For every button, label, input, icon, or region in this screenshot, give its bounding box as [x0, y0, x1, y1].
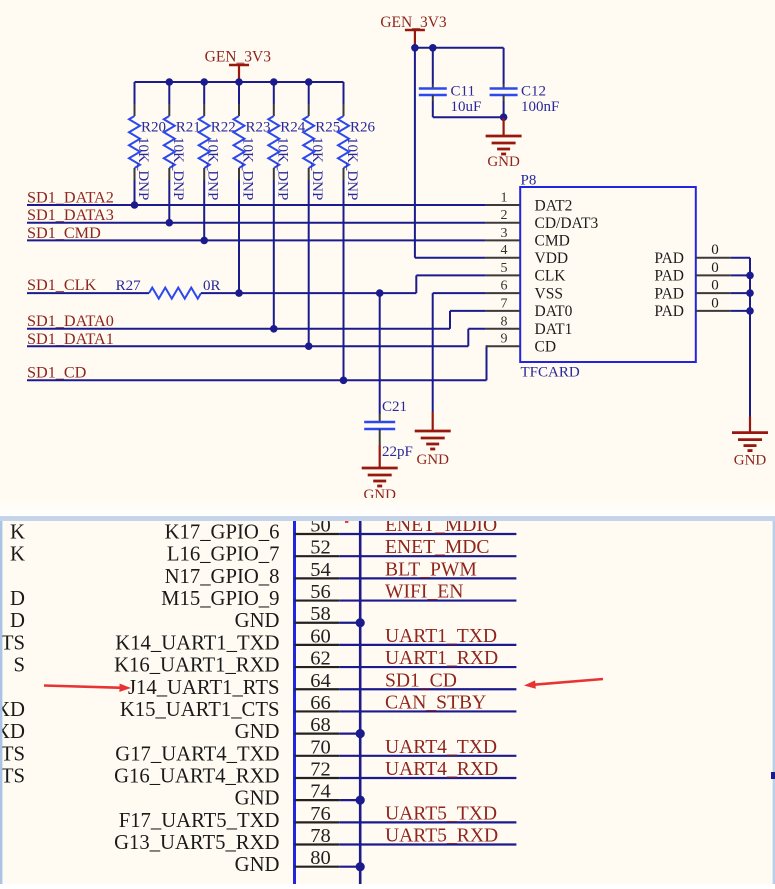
pin 1 DAT2 [486, 204, 521, 206]
node GND junction [356, 796, 365, 805]
svg-text:UART5_RXD: UART5_RXD [385, 826, 498, 847]
svg-text:C12: C12 [521, 84, 546, 100]
svg-text:GND: GND [235, 854, 280, 876]
svg-text:S: S [13, 655, 25, 677]
svg-text:72: 72 [310, 758, 331, 780]
wire GND bus vertical [359, 521, 362, 884]
pin 2 CD/DAT3 [486, 222, 521, 224]
svg-text:56: 56 [310, 581, 331, 603]
svg-text:9: 9 [501, 332, 508, 347]
svg-text:10K_DNP: 10K_DNP [240, 137, 256, 200]
svg-text:CD/DAT3: CD/DAT3 [535, 215, 599, 232]
svg-text:SD1_CMD: SD1_CMD [27, 224, 101, 242]
node GND junction [356, 862, 365, 871]
svg-text:GND: GND [734, 453, 767, 469]
svg-text:K17_GPIO_6: K17_GPIO_6 [165, 522, 280, 544]
svg-text:R22: R22 [211, 120, 236, 136]
ground GND below VSS [432, 412, 434, 431]
svg-text:ENET_MDC: ENET_MDC [385, 537, 490, 558]
svg-text:G13_UART5_RXD: G13_UART5_RXD [114, 832, 279, 854]
svg-text:1: 1 [501, 191, 508, 206]
svg-text:K14_UART1_TXD: K14_UART1_TXD [115, 632, 279, 654]
svg-text:R24: R24 [280, 120, 306, 136]
node GND junction [356, 618, 365, 627]
pin 3 CMD [486, 239, 521, 241]
svg-text:100nF: 100nF [521, 99, 559, 115]
wire SD1_CMD to pin 3 [27, 239, 486, 241]
svg-text:SD1_DATA1: SD1_DATA1 [27, 330, 114, 348]
pin 50 [295, 533, 340, 535]
svg-text:VSS: VSS [535, 285, 563, 302]
svg-text:66: 66 [310, 692, 331, 714]
svg-text:GND: GND [235, 721, 280, 743]
pin 9 CD [486, 345, 521, 347]
svg-text:D: D [10, 588, 25, 610]
resistor R26 10K_DNP [343, 104, 345, 116]
svg-text:0: 0 [711, 295, 719, 311]
svg-text:52: 52 [310, 537, 331, 559]
resistor R22 10K_DNP [203, 104, 205, 116]
svg-text:PAD: PAD [654, 285, 684, 302]
wire cap bottom rail [433, 116, 504, 118]
svg-text:SD1_CD: SD1_CD [385, 670, 457, 691]
svg-text:TFCARD: TFCARD [521, 365, 580, 381]
svg-text:K15_UART1_CTS: K15_UART1_CTS [120, 699, 280, 721]
svg-text:SD1_DATA0: SD1_DATA0 [27, 312, 114, 330]
resistor R25 10K_DNP [308, 104, 310, 116]
svg-text:10K_DNP: 10K_DNP [274, 137, 290, 200]
pin 68 [295, 733, 340, 735]
svg-text:C21: C21 [382, 399, 407, 415]
wire SD1_CLK left segment [27, 292, 149, 294]
pin 54 [295, 577, 340, 579]
pin 58 [295, 622, 340, 624]
wire SD1_DATA2 to pin 1 [27, 204, 486, 206]
pin PAD 3 [696, 292, 731, 294]
pin 70 [295, 755, 340, 757]
svg-text:10K_DNP: 10K_DNP [205, 137, 221, 200]
capacitor C21 22pF [379, 293, 381, 414]
wire PAD bus to ground [749, 258, 751, 417]
svg-text:BLT_PWM: BLT_PWM [385, 559, 477, 580]
svg-text:60: 60 [310, 625, 331, 647]
pin PAD 4 [696, 310, 731, 312]
arrow pointing to J14_UART1_RTS [44, 686, 123, 688]
wire SD1_CLK right segment to pin 5 [201, 292, 416, 294]
left edge strip [0, 521, 2, 884]
svg-text:10K_DNP: 10K_DNP [135, 137, 151, 200]
svg-text:78: 78 [310, 825, 331, 847]
svg-text:DAT1: DAT1 [535, 321, 573, 338]
pin PAD 2 [696, 274, 731, 276]
svg-text:N17_GPIO_8: N17_GPIO_8 [165, 566, 280, 588]
svg-text:PAD: PAD [654, 303, 684, 320]
pin 8 DAT1 [486, 328, 521, 330]
svg-text:2: 2 [501, 208, 508, 223]
svg-text:R21: R21 [176, 120, 201, 136]
svg-text:G17_UART4_TXD: G17_UART4_TXD [115, 743, 279, 765]
svg-text:K: K [10, 544, 25, 566]
pin 52 [295, 555, 340, 557]
svg-text:UART4_RXD: UART4_RXD [385, 759, 498, 780]
power GEN_3V3 (right, above C11/C12) [405, 29, 425, 32]
svg-text:10K_DNP: 10K_DNP [309, 137, 325, 200]
svg-text:K16_UART1_RXD: K16_UART1_RXD [114, 655, 279, 677]
ground GND below PAD bus [749, 417, 751, 433]
svg-text:P8: P8 [521, 173, 537, 189]
svg-text:GND: GND [416, 452, 449, 468]
pin 80 [295, 866, 340, 868]
svg-text:C11: C11 [451, 84, 475, 100]
wire left part edge [293, 521, 296, 884]
svg-text:GND: GND [235, 610, 280, 632]
svg-text:R23: R23 [246, 120, 271, 136]
resistor R21 10K_DNP [168, 104, 170, 116]
svg-text:76: 76 [310, 803, 331, 825]
svg-text:UART1_RXD: UART1_RXD [385, 648, 498, 669]
pin 62 [295, 666, 340, 668]
svg-text:10uF: 10uF [451, 99, 482, 115]
svg-text:0: 0 [711, 242, 719, 258]
pin 4 VDD [486, 257, 521, 259]
pin 78 [295, 843, 340, 845]
pin 7 DAT0 [486, 310, 521, 312]
svg-text:80: 80 [310, 847, 331, 869]
red mark near pin 50 [345, 520, 348, 523]
svg-text:GEN_3V3: GEN_3V3 [205, 49, 272, 66]
svg-text:XD: XD [0, 721, 25, 743]
svg-text:SD1_CD: SD1_CD [27, 364, 87, 382]
svg-text:DAT0: DAT0 [535, 303, 573, 320]
power GEN_3V3 (left, above pullup bus) [229, 64, 249, 67]
svg-text:UART4_TXD: UART4_TXD [385, 737, 497, 758]
connector P8 TFCARD [520, 187, 696, 362]
svg-text:0: 0 [711, 260, 719, 276]
wire VSS pin 6 to ground [433, 292, 486, 294]
wire SD1_DATA0 to pin 7 [27, 328, 450, 330]
svg-text:6: 6 [501, 279, 508, 294]
svg-text:SD1_DATA3: SD1_DATA3 [27, 206, 114, 224]
svg-text:SD1_DATA2: SD1_DATA2 [27, 189, 114, 207]
resistor R20 10K_DNP [134, 104, 136, 116]
svg-text:58: 58 [310, 603, 331, 625]
wire SD1_CD to pin 9 [27, 379, 487, 381]
svg-text:5: 5 [501, 261, 508, 276]
pin 74 [295, 799, 340, 801]
svg-text:R25: R25 [315, 120, 340, 136]
svg-text:PAD: PAD [654, 268, 684, 285]
svg-text:PAD: PAD [654, 250, 684, 267]
pin 72 [295, 777, 340, 779]
svg-text:G16_UART4_RXD: G16_UART4_RXD [114, 765, 279, 787]
capacitor C11 10uF [432, 48, 434, 84]
svg-text:VDD: VDD [535, 250, 569, 267]
pin 64 [295, 688, 340, 690]
svg-text:0R: 0R [203, 278, 221, 294]
svg-text:22pF: 22pF [382, 444, 413, 460]
wire SD1_DATA3 to pin 2 [27, 222, 486, 224]
ground GND below C12 [503, 118, 505, 136]
svg-text:CD: CD [535, 339, 557, 356]
svg-text:R27: R27 [116, 278, 142, 294]
svg-text:7: 7 [501, 296, 508, 311]
svg-text:8: 8 [501, 314, 508, 329]
svg-text:SD1_CLK: SD1_CLK [27, 276, 97, 294]
svg-text:CMD: CMD [535, 233, 570, 250]
svg-text:DAT2: DAT2 [535, 197, 573, 214]
svg-text:M15_GPIO_9: M15_GPIO_9 [161, 588, 279, 610]
wire SD1_DATA1 to pin 8 [27, 345, 468, 347]
svg-text:62: 62 [310, 648, 331, 670]
svg-text:GEN_3V3: GEN_3V3 [380, 14, 447, 31]
svg-text:XD: XD [0, 699, 25, 721]
svg-text:UART1_TXD: UART1_TXD [385, 626, 497, 647]
arrow pointing to SD1_CD net [533, 679, 604, 685]
svg-text:GND: GND [235, 788, 280, 810]
right edge strip [773, 521, 775, 884]
pin 5 CLK [486, 274, 521, 276]
svg-text:R26: R26 [350, 120, 376, 136]
svg-text:D: D [10, 610, 25, 632]
ground GND below C21 [379, 445, 381, 468]
svg-text:0: 0 [711, 278, 719, 294]
svg-text:54: 54 [310, 559, 331, 581]
svg-text:10K_DNP: 10K_DNP [344, 137, 360, 200]
svg-text:68: 68 [310, 714, 331, 736]
resistor R23 10K_DNP [238, 104, 240, 116]
wire cap top rail [415, 47, 504, 49]
svg-text:L16_GPIO_7: L16_GPIO_7 [167, 544, 280, 566]
svg-text:TS: TS [1, 743, 25, 765]
svg-text:F17_UART5_TXD: F17_UART5_TXD [119, 810, 280, 832]
svg-text:CAN_STBY: CAN_STBY [385, 692, 486, 713]
svg-text:R20: R20 [141, 120, 166, 136]
node bus junctions [166, 78, 174, 86]
pin 60 [295, 644, 340, 646]
svg-text:4: 4 [501, 243, 508, 258]
svg-text:TS: TS [1, 632, 25, 654]
svg-text:CLK: CLK [535, 268, 567, 285]
pin PAD 1 [696, 257, 731, 259]
pin 76 [295, 821, 340, 823]
wire GEN_3V3 to VDD pin 4 [414, 48, 416, 258]
svg-text:UART5_TXD: UART5_TXD [385, 803, 497, 824]
svg-text:K: K [10, 522, 25, 544]
svg-text:GND: GND [487, 154, 520, 170]
wire pullup bus GEN_3V3 [135, 81, 344, 83]
svg-text:3: 3 [501, 226, 508, 241]
svg-text:J14_UART1_RTS: J14_UART1_RTS [128, 677, 280, 699]
resistor R24 10K_DNP [273, 104, 275, 116]
svg-text:70: 70 [310, 736, 331, 758]
pin 56 [295, 599, 340, 601]
svg-text:74: 74 [310, 781, 331, 803]
pin 66 [295, 710, 340, 712]
pin 6 VSS [486, 292, 521, 294]
svg-text:WIFI_EN: WIFI_EN [385, 582, 463, 603]
svg-text:TS: TS [1, 765, 25, 787]
svg-text:64: 64 [310, 670, 331, 692]
node GND junction [356, 729, 365, 738]
capacitor C12 100nF [503, 48, 505, 84]
svg-text:10K_DNP: 10K_DNP [170, 137, 186, 200]
